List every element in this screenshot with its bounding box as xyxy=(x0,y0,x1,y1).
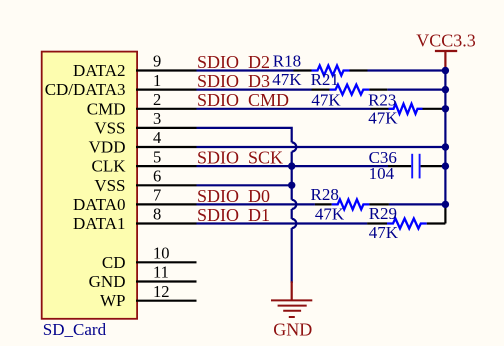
pin 2 (CMD) xyxy=(87,90,197,118)
svg-text:47K: 47K xyxy=(272,70,302,89)
svg-text:10: 10 xyxy=(153,244,170,263)
wire VSS pin6 to vertical xyxy=(197,184,293,186)
wire R21 to VCC bus xyxy=(387,88,445,90)
capacitor C36 xyxy=(388,154,445,179)
svg-text:104: 104 xyxy=(369,164,395,183)
svg-text:47K: 47K xyxy=(369,223,399,242)
wire net SDIO_CMD (pin2 to R23) xyxy=(197,108,371,110)
wire VDD pin4 to VCC bus xyxy=(197,146,446,148)
resistor R29 xyxy=(367,219,445,229)
resistor R18 xyxy=(294,66,368,76)
pin 3 (VSS) xyxy=(94,109,196,137)
junction at bus row DATA3 xyxy=(442,86,449,93)
svg-text:SDIO CMD: SDIO CMD xyxy=(197,90,289,110)
svg-text:7: 7 xyxy=(153,186,161,205)
wire R28 to VCC bus xyxy=(389,203,446,205)
wire hop over DATA1 row xyxy=(292,219,297,228)
svg-text:47K: 47K xyxy=(311,91,341,110)
junction at bus row CMD xyxy=(442,105,449,112)
junction at VSS vertical row VSS pin6 xyxy=(288,182,295,189)
pin 4 (VDD) xyxy=(89,128,197,156)
wire VCC bus vertical xyxy=(444,67,446,204)
svg-text:11: 11 xyxy=(153,263,169,282)
pin 12 (WP) xyxy=(100,282,197,310)
wire VSS pin3 to vertical xyxy=(197,128,292,283)
wire net SDIO_D2 (pin9 to R18) xyxy=(197,69,294,71)
pin 9 (DATA2) xyxy=(73,52,196,80)
svg-text:DATA1: DATA1 xyxy=(73,214,125,233)
pin 6 (VSS) xyxy=(94,167,196,195)
svg-text:SDIO D3: SDIO D3 xyxy=(197,71,270,91)
wire net SDIO_D1 (pin8 to R29) xyxy=(197,222,368,224)
power VCC3.3 symbol xyxy=(435,51,457,68)
svg-text:CD: CD xyxy=(102,253,126,272)
svg-text:9: 9 xyxy=(153,52,161,71)
wire hop over DATA0 row xyxy=(292,200,297,209)
svg-text:12: 12 xyxy=(153,282,170,301)
svg-text:3: 3 xyxy=(153,109,161,128)
svg-text:SDIO D2: SDIO D2 xyxy=(197,52,270,72)
svg-text:47K: 47K xyxy=(368,108,398,127)
svg-text:DATA0: DATA0 xyxy=(73,195,125,214)
svg-text:8: 8 xyxy=(153,205,161,224)
svg-text:47K: 47K xyxy=(315,205,345,224)
wire R18 to VCC bus xyxy=(368,69,446,71)
svg-text:CD/DATA3: CD/DATA3 xyxy=(45,80,126,99)
svg-text:6: 6 xyxy=(153,167,161,186)
svg-text:CLK: CLK xyxy=(92,157,127,176)
svg-text:SD_Card: SD_Card xyxy=(43,320,107,339)
pin 8 (DATA1) xyxy=(73,205,196,233)
svg-text:GND: GND xyxy=(89,272,126,291)
svg-text:R21: R21 xyxy=(311,70,339,89)
svg-text:R23: R23 xyxy=(368,91,396,110)
resistor R21 xyxy=(312,85,388,95)
pin 1 (CD/DATA3) xyxy=(45,71,197,99)
wire net SDIO_SCK (pin5 to C36) xyxy=(197,165,389,167)
svg-text:WP: WP xyxy=(100,291,126,310)
svg-text:SDIO D1: SDIO D1 xyxy=(197,205,270,225)
pin 5 (CLK) xyxy=(92,147,197,175)
svg-text:SDIO SCK: SDIO SCK xyxy=(197,148,283,168)
svg-text:1: 1 xyxy=(153,71,161,90)
svg-text:R18: R18 xyxy=(273,51,301,70)
svg-text:VSS: VSS xyxy=(94,176,125,195)
svg-text:GND: GND xyxy=(273,319,312,339)
svg-text:CMD: CMD xyxy=(87,99,126,118)
svg-text:VSS: VSS xyxy=(94,118,125,137)
resistor R23 xyxy=(371,104,446,114)
wire net SDIO_D3 (pin1 to R21) xyxy=(197,88,312,90)
junction at bus row DATA2 xyxy=(442,67,449,74)
pin 11 (GND) xyxy=(89,263,197,291)
wire R29 corner up to bus junction xyxy=(444,204,446,223)
svg-text:4: 4 xyxy=(153,128,161,147)
svg-text:SDIO D0: SDIO D0 xyxy=(197,186,270,206)
pin 10 (CD) xyxy=(102,244,197,272)
junction at VSS vertical row CLK xyxy=(288,162,295,169)
wire net SDIO_D0 (pin7 to R28) xyxy=(197,203,315,205)
svg-text:VDD: VDD xyxy=(89,138,126,157)
junction at bus row C36 xyxy=(442,162,449,169)
svg-text:R28: R28 xyxy=(311,185,339,204)
svg-text:R29: R29 xyxy=(369,204,397,223)
svg-text:DATA2: DATA2 xyxy=(73,61,125,80)
wire hop over VDD row xyxy=(292,142,297,151)
pin 7 (DATA0) xyxy=(73,186,196,214)
component SD_Card body box xyxy=(42,52,137,319)
resistor R28 xyxy=(315,199,389,209)
junction at bus row DATA0 xyxy=(442,201,449,208)
svg-text:VCC3.3: VCC3.3 xyxy=(416,31,476,51)
ground GND symbol xyxy=(271,281,312,317)
svg-text:2: 2 xyxy=(153,90,161,109)
junction at bus row VDD xyxy=(442,143,449,150)
svg-text:5: 5 xyxy=(153,147,161,166)
